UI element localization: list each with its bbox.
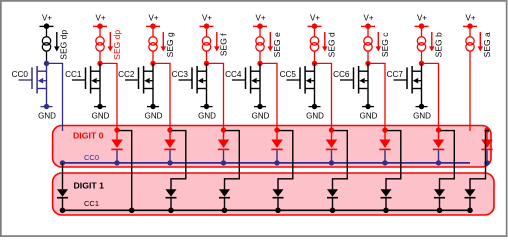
wire to digit 1 anode: [62, 164, 64, 190]
svg-text:SEG a: SEG a: [482, 32, 492, 57]
nmos CC6: [340, 63, 368, 106]
wire (SEG a column straight into digit blocks): [469, 51, 471, 131]
wire: [46, 51, 48, 63]
wire: [314, 26, 316, 37]
current direction arrow: [56, 32, 58, 47]
wire: [259, 26, 261, 37]
junction on CC1 net: [467, 208, 473, 214]
svg-text:GND: GND: [92, 112, 110, 121]
svg-text:CC0: CC0: [12, 70, 29, 79]
node pin 3 (source/drain junction): [204, 61, 209, 66]
node pin 4 (source/drain junction): [257, 61, 262, 66]
junction on CC0 net: [274, 160, 279, 165]
current source SEG f (column 4): [202, 37, 210, 45]
digit 0 LED block: [53, 126, 491, 168]
wire: [367, 26, 369, 37]
svg-text:V+: V+: [417, 14, 427, 23]
node pin 2 (source/drain junction): [150, 61, 155, 66]
svg-text:V+: V+: [363, 14, 373, 23]
node segment branch in digit 0 (column 4): [221, 127, 226, 132]
current direction arrow: [324, 32, 326, 47]
wire: [206, 51, 208, 63]
svg-text:SEG g: SEG g: [165, 32, 175, 57]
svg-text:GND: GND: [360, 112, 378, 121]
junction on CC0 net: [484, 160, 489, 165]
current source SEG b (column 8): [417, 37, 425, 45]
LED digit 1 segment d: [327, 189, 338, 197]
svg-text:V+: V+: [148, 14, 158, 23]
ground: [41, 106, 53, 108]
junction on CC0 net: [329, 160, 334, 165]
svg-text:CC7: CC7: [387, 70, 404, 79]
current source SEG e (column 5): [256, 37, 264, 45]
svg-text:DIGIT 1: DIGIT 1: [74, 180, 105, 190]
cathode lead to CC0 net: [384, 150, 386, 163]
LED digit 1 segment f: [219, 189, 230, 197]
current source SEG dp (column 2): [96, 37, 104, 45]
svg-text:V+: V+: [465, 14, 475, 23]
svg-text:CC4: CC4: [225, 70, 242, 79]
junction on CC1 net: [60, 208, 66, 214]
current direction arrow: [269, 32, 271, 47]
wire branch to digit blocks: [422, 63, 439, 131]
junction on CC0 net: [114, 160, 119, 165]
current direction arrow: [216, 32, 218, 47]
svg-text:V+: V+: [95, 14, 105, 23]
ground: [94, 106, 106, 108]
svg-text:GND: GND: [413, 112, 431, 121]
nmos CC3: [179, 63, 207, 106]
wire branch to digit blocks: [47, 63, 63, 131]
cathode lead to CC0 net: [486, 150, 488, 163]
wire branch to digit 1 (column 3): [171, 131, 186, 190]
node segment branch in digit 0 (column 9): [484, 127, 489, 132]
wire branch to digit blocks: [207, 63, 224, 131]
ground: [416, 106, 428, 108]
svg-text:GND: GND: [38, 112, 56, 121]
node pin 1 (source/drain junction): [97, 61, 102, 66]
junction on CC0 net (pin 0): [60, 160, 65, 165]
wire: [99, 26, 101, 37]
current direction arrow: [479, 32, 481, 47]
svg-text:CC2: CC2: [118, 70, 135, 79]
svg-text:V+: V+: [255, 14, 265, 23]
junction on CC0 net: [382, 160, 387, 165]
svg-text:CC5: CC5: [280, 70, 297, 79]
wire: [314, 51, 316, 63]
node pin 6 (source/drain junction): [365, 61, 370, 66]
junction on CC1 net: [275, 208, 281, 214]
junction on CC0 net: [221, 160, 226, 165]
LED digit 1 segment c: [381, 189, 392, 197]
wire branch to digit blocks: [368, 63, 385, 131]
ground: [201, 106, 213, 108]
junction on CC0 net: [436, 160, 441, 165]
wire branch to digit 1 (column 9): [470, 131, 489, 190]
ground: [309, 106, 321, 108]
current direction arrow: [377, 32, 379, 47]
node pin 0 (source/drain junction): [44, 61, 49, 66]
current direction arrow: [431, 32, 433, 47]
current direction arrow: [109, 32, 111, 47]
digit 1 LED block: [53, 173, 494, 215]
current source SEG a (column 9): [466, 37, 474, 45]
LED digit 0 segment d: [331, 132, 333, 140]
wire: [152, 51, 154, 63]
LED digit 0 segment c: [384, 132, 386, 140]
LED digit 0 segment a: [486, 132, 488, 140]
junction on CC1 net: [168, 208, 174, 214]
current direction arrow: [162, 32, 164, 47]
cathode lead to CC0 net: [276, 150, 278, 163]
nmos CC5: [287, 63, 315, 106]
svg-text:SEG f: SEG f: [219, 33, 229, 56]
wire branch to digit blocks: [100, 63, 117, 131]
wire: [421, 26, 423, 37]
net CC0 (digit 0 common cathode line): [63, 162, 471, 164]
current source SEG c (column 7): [364, 37, 372, 45]
ground: [254, 106, 266, 108]
junction on CC0 net: [167, 160, 172, 165]
wire: [367, 51, 369, 63]
svg-text:SEG dp: SEG dp: [112, 30, 122, 60]
wire branch to digit 1 (column 4): [225, 131, 240, 190]
svg-text:SEG c: SEG c: [380, 32, 390, 57]
net CC1 (digit 1 common cathode line): [63, 209, 471, 211]
LED digit 1 segment g: [166, 189, 177, 197]
node segment branch in digit 0 (column 3): [167, 127, 172, 132]
current source SEG d (column 6): [310, 37, 318, 45]
LED digit 0 segment dp: [116, 132, 118, 140]
svg-text:CC3: CC3: [172, 70, 189, 79]
svg-text:V+: V+: [42, 14, 52, 23]
svg-text:V+: V+: [202, 14, 212, 23]
cathode lead to CC0 net: [223, 150, 225, 163]
node segment branch in digit 0 (column 2): [114, 127, 119, 132]
svg-text:SEG b: SEG b: [434, 32, 444, 57]
LED digit 1 segment e: [273, 189, 284, 197]
LED digit 1 segment a: [465, 189, 476, 197]
wire branch to digit blocks: [260, 63, 277, 131]
node segment branch in digit 0 (column 7): [382, 127, 387, 132]
nmos CC0: [19, 63, 47, 106]
junction on CC1 net: [222, 208, 228, 214]
wire branch to digit 1 (column 6): [333, 131, 348, 190]
wire: [99, 51, 101, 63]
svg-text:SEG e: SEG e: [272, 32, 282, 57]
nmos CC1: [72, 63, 100, 106]
svg-text:SEG dp: SEG dp: [59, 30, 69, 60]
svg-text:GND: GND: [306, 112, 324, 121]
node pin 5 (source/drain junction): [312, 61, 317, 66]
svg-text:CC1: CC1: [65, 70, 82, 79]
LED digit 0 segment g: [169, 132, 171, 140]
wire: [152, 26, 154, 37]
LED digit 1 segment b: [434, 189, 445, 197]
wire branch to digit blocks: [315, 63, 332, 131]
current source SEG dp (column 1): [42, 37, 50, 45]
svg-text:CC0: CC0: [84, 153, 99, 162]
LED digit 0 segment e: [276, 132, 278, 140]
wire: [469, 26, 471, 37]
nmos CC4: [232, 63, 260, 106]
svg-text:CC6: CC6: [333, 70, 350, 79]
wire branch to digit 1 (column 5): [278, 131, 293, 190]
cathode lead to CC0 net: [169, 150, 171, 163]
svg-text:SEG d: SEG d: [327, 32, 337, 57]
svg-text:GND: GND: [252, 112, 270, 121]
svg-text:V+: V+: [310, 14, 320, 23]
svg-text:DIGIT 0: DIGIT 0: [73, 131, 104, 141]
ground: [362, 106, 374, 108]
junction on CC1 net: [383, 208, 389, 214]
wire branch to digit 1 (column 7): [386, 131, 401, 190]
LED digit 0 segment f: [223, 132, 225, 140]
LED digit 1 segment dp: [57, 189, 68, 197]
wire branch to digit 1 (column 8): [440, 131, 455, 190]
junction on CC1 net: [330, 208, 336, 214]
wire branch to digit blocks: [153, 63, 170, 131]
junction on CC1 net: [437, 208, 443, 214]
nmos CC2: [125, 63, 153, 106]
current source SEG g (column 3): [149, 37, 157, 45]
ground: [147, 106, 159, 108]
wire: [259, 51, 261, 63]
nmos CC7: [394, 63, 422, 106]
svg-text:GND: GND: [198, 112, 216, 121]
wire: [421, 51, 423, 63]
wire: [206, 26, 208, 37]
wire pin 1 to CC1 net (digit 1 common): [119, 131, 132, 211]
node segment branch in digit 0 (column 5): [274, 127, 279, 132]
node pin 7 (source/drain junction): [419, 61, 424, 66]
node segment branch in digit 0 (column 6): [329, 127, 334, 132]
cathode lead to CC0 net: [116, 150, 118, 163]
svg-text:CC1: CC1: [84, 199, 99, 208]
node segment branch in digit 0 (column 8): [436, 127, 441, 132]
cathode lead to CC0 net: [438, 150, 440, 163]
junction on CC1 net: [129, 208, 135, 214]
LED digit 0 segment b: [438, 132, 440, 140]
wire: [46, 26, 48, 37]
svg-text:GND: GND: [145, 112, 163, 121]
cathode lead to CC0 net: [331, 150, 333, 163]
